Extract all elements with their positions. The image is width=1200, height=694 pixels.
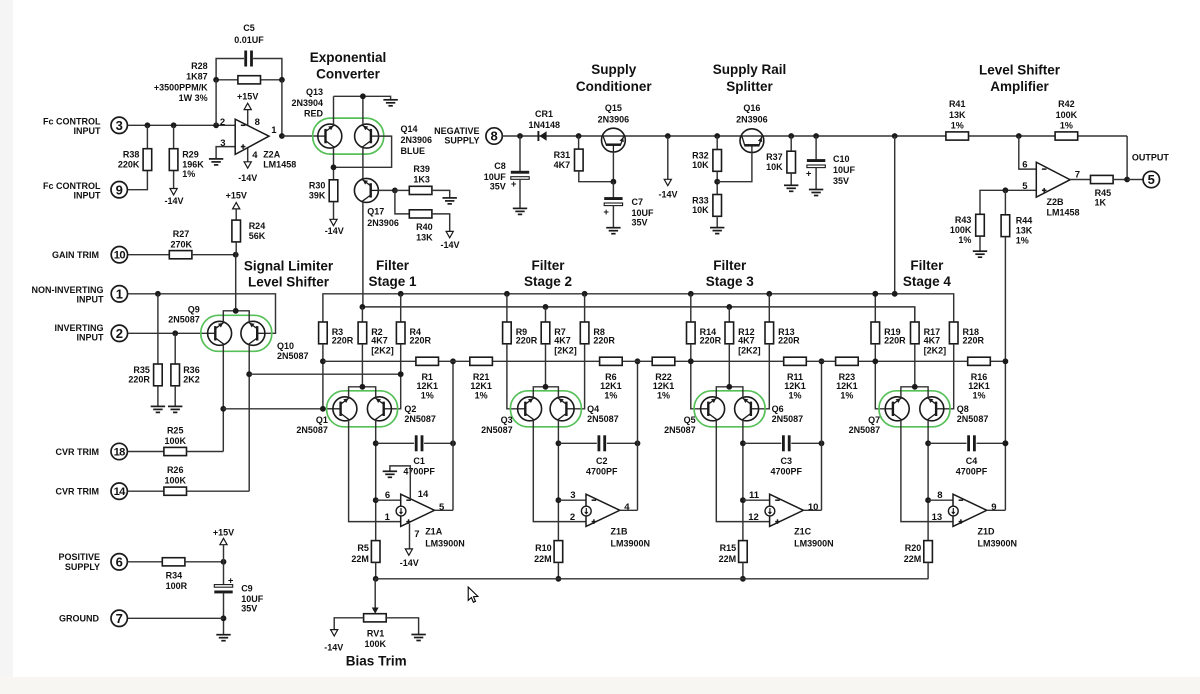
- label pin 7: [414, 529, 419, 540]
- svg-text:1N4148: 1N4148: [529, 120, 561, 130]
- wire collectors to ground: [334, 96, 391, 100]
- svg-text:3: 3: [220, 138, 225, 149]
- ground at C8: [513, 208, 527, 214]
- terminal input 2: [111, 325, 127, 341]
- svg-text:Level Shifter: Level Shifter: [248, 274, 330, 289]
- wire Z2B minus input: [1019, 136, 1037, 169]
- node spine R14 tap: [688, 358, 694, 364]
- svg-text:R15: R15: [720, 543, 737, 553]
- node minus input stage 4: [925, 497, 931, 503]
- resistor R21: [470, 357, 493, 365]
- resistor R24: [232, 220, 266, 242]
- wire R13 to Q6 base: [758, 344, 769, 409]
- svg-text:C9: C9: [241, 584, 253, 594]
- svg-text:100K: 100K: [950, 225, 972, 235]
- svg-text:R10: R10: [535, 543, 552, 553]
- wire Z1A pin 14 to ground: [390, 466, 410, 499]
- svg-text:Q5: Q5: [684, 415, 696, 425]
- svg-text:Q4: Q4: [587, 404, 599, 414]
- svg-text:2N3906: 2N3906: [598, 114, 630, 124]
- wire C5 right: [253, 59, 282, 80]
- wire R28 left lead: [216, 79, 238, 81]
- wire junction to Q9 Q10 bases: [235, 255, 237, 311]
- wire Z1A pin 7 stub: [409, 524, 411, 549]
- wire C8 column: [519, 136, 521, 172]
- wire filter feed column: [894, 136, 896, 294]
- svg-text:Filter: Filter: [531, 258, 565, 273]
- svg-text:BLUE: BLUE: [401, 146, 426, 156]
- svg-text:R34: R34: [166, 571, 183, 581]
- transistor Q10: [241, 321, 309, 361]
- svg-text:LM1458: LM1458: [1047, 207, 1080, 217]
- svg-text:12K1: 12K1: [416, 381, 438, 391]
- svg-text:Stage 4: Stage 4: [903, 274, 952, 289]
- wire C10 column: [815, 136, 817, 160]
- resistor R31: [554, 149, 583, 171]
- matched pair outline Q3 Q4: [510, 391, 581, 427]
- wire Q4 collector column: [557, 420, 559, 540]
- wire C3 right lead: [791, 442, 821, 444]
- svg-text:10: 10: [114, 250, 126, 262]
- svg-text:CVR TRIM: CVR TRIM: [56, 487, 100, 497]
- wire Q3 collector to plus input: [533, 420, 586, 521]
- svg-text:Exponential: Exponential: [310, 50, 387, 65]
- svg-text:1K3: 1K3: [413, 174, 430, 184]
- wire R42 to output node: [1126, 136, 1128, 180]
- node spine junction stage 2: [635, 358, 641, 364]
- node spine junction stage 3: [819, 358, 825, 364]
- resistor R1: [416, 357, 439, 365]
- wire C10 to ground: [815, 168, 817, 190]
- svg-text:56K: 56K: [249, 231, 266, 241]
- wire R8 to Q4 base: [574, 344, 585, 409]
- svg-text:3: 3: [570, 490, 575, 501]
- svg-text:Filter: Filter: [376, 258, 410, 273]
- svg-text:220R: 220R: [332, 336, 354, 346]
- svg-text:SUPPLY: SUPPLY: [65, 562, 100, 572]
- title Supply Conditioner: [576, 62, 652, 94]
- svg-text:1%: 1%: [788, 391, 801, 401]
- svg-text:9: 9: [116, 182, 123, 197]
- svg-text:Q10: Q10: [277, 341, 294, 351]
- label Fc CONTROL INPUT (9): [43, 181, 101, 200]
- ground exponential converter: [383, 100, 397, 106]
- resistor R26: [164, 487, 187, 495]
- wire R14 to Q5 base: [691, 344, 701, 409]
- svg-text:R30: R30: [309, 181, 326, 191]
- svg-text:R20: R20: [905, 543, 922, 553]
- svg-text:Level Shifter: Level Shifter: [979, 62, 1061, 77]
- capacitor C10: [806, 154, 856, 186]
- wire Z2B output to R45: [1070, 179, 1090, 181]
- wire Q2 collector column: [375, 420, 377, 540]
- label R16: [968, 372, 990, 401]
- svg-text:C1: C1: [413, 456, 425, 466]
- node bus1 feed tap: [892, 291, 898, 297]
- wire R25 to Q9 column: [187, 451, 224, 453]
- resistor R7: [541, 322, 577, 356]
- node bus2 tap R7: [543, 304, 549, 310]
- svg-text:12K1: 12K1: [600, 381, 622, 391]
- node bus1 tap R14: [688, 291, 694, 297]
- node R38 tap: [145, 122, 151, 128]
- label C4: [956, 456, 988, 477]
- wire R26 to Q10 column: [187, 490, 250, 492]
- svg-text:INPUT: INPUT: [74, 190, 102, 200]
- label GAIN TRIM: [52, 250, 99, 260]
- label NEGATIVE SUPPLY: [434, 126, 479, 145]
- resistor R22: [652, 357, 675, 365]
- svg-text:2N5087: 2N5087: [587, 414, 619, 424]
- svg-text:Q13: Q13: [306, 87, 323, 97]
- node bases bar Q9 Q10: [233, 308, 239, 314]
- wire R7 top lead: [545, 307, 547, 322]
- wire minus input stage 4: [928, 499, 953, 501]
- svg-text:2N3906: 2N3906: [401, 135, 433, 145]
- title Filter Stage 3: [706, 258, 755, 289]
- wire output column stage 2: [637, 361, 639, 510]
- resistor R44: [1001, 215, 1033, 246]
- svg-text:22M: 22M: [719, 554, 737, 564]
- capacitor C7: [603, 197, 654, 228]
- resistor R33: [692, 195, 721, 217]
- label R25: [164, 426, 186, 446]
- resistor R4: [396, 322, 431, 346]
- label -14V Z1A: [400, 558, 419, 568]
- node Q13 emitter junction: [331, 164, 337, 170]
- svg-text:4700PF: 4700PF: [771, 467, 803, 477]
- svg-text:Stage 2: Stage 2: [524, 274, 572, 289]
- svg-text:1%: 1%: [972, 391, 985, 401]
- wire Q10 emitter column: [248, 345, 250, 491]
- svg-text:R36: R36: [183, 365, 200, 375]
- svg-text:Z2B: Z2B: [1047, 197, 1065, 207]
- terminal input 6: [111, 554, 127, 570]
- label R41: [949, 99, 966, 131]
- wire R30 to -14V: [333, 202, 335, 220]
- svg-text:1: 1: [271, 125, 277, 136]
- svg-text:35V: 35V: [241, 604, 257, 614]
- power +15V arrow supply: [220, 538, 227, 544]
- svg-text:6: 6: [1022, 160, 1027, 171]
- svg-text:+: +: [806, 168, 812, 179]
- power -14V arrow rail: [664, 179, 671, 185]
- svg-text:2N5087: 2N5087: [481, 425, 513, 435]
- svg-text:Q6: Q6: [772, 404, 784, 414]
- svg-text:Q15: Q15: [605, 103, 622, 113]
- svg-text:INVERTING: INVERTING: [54, 323, 103, 333]
- wire R9 top lead: [506, 294, 508, 322]
- svg-text:LM3900N: LM3900N: [794, 539, 834, 549]
- resistor R17: [911, 322, 947, 356]
- wire terminal 3 to Z2A pin 2: [128, 124, 235, 126]
- svg-text:1%: 1%: [1016, 235, 1029, 245]
- wire inverting bus: [223, 408, 333, 410]
- svg-text:Z1A: Z1A: [425, 526, 443, 536]
- label OUTPUT: [1132, 153, 1170, 163]
- svg-text:Q2: Q2: [404, 404, 416, 414]
- label R42: [1056, 99, 1078, 131]
- resistor R23: [836, 357, 859, 365]
- svg-text:1W 3%: 1W 3%: [179, 93, 208, 103]
- wire R8 top lead: [584, 294, 586, 322]
- svg-text:LM3900N: LM3900N: [425, 539, 465, 549]
- label R39: [413, 164, 430, 184]
- label C5: [234, 23, 264, 45]
- label C3: [771, 456, 803, 477]
- svg-text:2N5087: 2N5087: [277, 351, 309, 361]
- svg-text:Z1D: Z1D: [978, 526, 996, 536]
- label -14V Z2A: [238, 173, 257, 183]
- svg-text:2N5087: 2N5087: [849, 425, 881, 435]
- svg-text:8: 8: [255, 117, 260, 128]
- svg-text:220R: 220R: [516, 336, 538, 346]
- wire R36 column: [174, 333, 176, 364]
- terminal input 8: [486, 128, 502, 144]
- svg-text:4: 4: [624, 502, 630, 513]
- wire R44 top lead: [1004, 190, 1006, 215]
- node Z2B minus junction: [1016, 133, 1022, 139]
- wire RV1 right to ground: [386, 618, 418, 635]
- svg-text:C2: C2: [596, 456, 608, 466]
- node bases bar stage 4: [912, 384, 918, 390]
- label +15V R24: [226, 191, 247, 201]
- node bus1 tap R4: [398, 291, 404, 297]
- svg-text:2N5087: 2N5087: [404, 414, 436, 424]
- resistor R16: [968, 357, 991, 365]
- resistor R20: [904, 541, 933, 564]
- wire R19 top lead: [874, 294, 876, 322]
- svg-text:1%: 1%: [958, 235, 971, 245]
- transistor Q17: [354, 178, 398, 227]
- wire Q13 collector stub: [333, 96, 335, 125]
- svg-text:POSITIVE: POSITIVE: [58, 552, 100, 562]
- wire to R39: [395, 189, 409, 191]
- label RV1: [365, 629, 387, 649]
- svg-text:R35: R35: [133, 365, 150, 375]
- wire Q9 Q10 bases bar: [223, 311, 249, 322]
- wire C8 to ground: [519, 179, 521, 208]
- node R44 plus junction: [1003, 187, 1009, 193]
- resistor R43: [950, 214, 984, 245]
- node non-inverting bus join: [398, 371, 404, 377]
- svg-text:INPUT: INPUT: [77, 333, 105, 343]
- svg-text:Signal Limiter: Signal Limiter: [244, 258, 334, 273]
- svg-text:1%: 1%: [951, 121, 964, 131]
- svg-text:8: 8: [490, 129, 497, 144]
- node minus input stage 1: [373, 497, 379, 503]
- wire R29 to -14V: [173, 171, 175, 189]
- node R31 tap: [576, 133, 582, 139]
- svg-text:11: 11: [749, 490, 760, 501]
- svg-text:Stage 3: Stage 3: [706, 274, 755, 289]
- svg-text:2N5087: 2N5087: [772, 414, 804, 424]
- label -14V rail: [658, 190, 677, 200]
- node spine R19 tap: [872, 358, 878, 364]
- resistor R12: [725, 322, 761, 356]
- wire C3 left lead: [743, 442, 781, 444]
- ground at Z1A pin 14: [383, 471, 397, 477]
- title Bias Trim: [346, 654, 407, 669]
- node C10 tap: [813, 133, 819, 139]
- svg-text:22M: 22M: [904, 554, 922, 564]
- svg-text:R41: R41: [949, 99, 966, 109]
- node filter feed tap: [892, 133, 898, 139]
- resistor R9: [503, 322, 538, 346]
- transistor Q2: [367, 397, 436, 424]
- node cap right stage 3: [819, 440, 825, 446]
- label -14V RV1: [324, 643, 343, 653]
- wiper arrow RV1: [372, 608, 379, 614]
- wire C1 right lead: [424, 442, 453, 444]
- svg-text:5: 5: [439, 502, 445, 513]
- wire terminal 10 to R27: [128, 254, 169, 256]
- node R35 tap: [155, 291, 161, 297]
- wire Q6 collector column: [742, 420, 744, 540]
- wire output node to terminal 5: [1127, 179, 1143, 181]
- node Q9 emitter bus: [220, 406, 226, 412]
- resistor R36: [171, 364, 200, 386]
- svg-text:2N5087: 2N5087: [296, 425, 328, 435]
- wire -14V stub: [667, 136, 669, 179]
- svg-text:13: 13: [932, 512, 943, 523]
- label -14V below R29: [164, 196, 183, 206]
- svg-text:C5: C5: [243, 23, 255, 33]
- svg-text:R27: R27: [173, 229, 190, 239]
- svg-text:1%: 1%: [182, 169, 195, 179]
- svg-text:12K1: 12K1: [653, 381, 675, 391]
- node inverting bus join: [320, 406, 326, 412]
- power -14V arrow below R29: [170, 189, 177, 195]
- svg-text:[2K2]: [2K2]: [554, 346, 577, 356]
- wire to R40: [395, 190, 409, 214]
- svg-text:R38: R38: [123, 150, 140, 160]
- wire R4 to Q2 base: [391, 344, 401, 409]
- node bus1 tap R19: [872, 291, 878, 297]
- svg-text:0.01UF: 0.01UF: [234, 35, 264, 45]
- wire R43 to ground: [979, 236, 981, 251]
- wire R20 to bottom bus: [927, 562, 929, 578]
- ground at R36: [168, 406, 182, 412]
- transistor Q1: [296, 397, 357, 435]
- resistor R38: [118, 149, 152, 171]
- svg-text:220R: 220R: [963, 336, 985, 346]
- svg-text:R42: R42: [1058, 99, 1075, 109]
- resistor R19: [871, 322, 906, 346]
- svg-text:+: +: [228, 576, 234, 587]
- node feedback right: [279, 77, 285, 83]
- node bases bar stage 2: [543, 384, 549, 390]
- svg-text:100K: 100K: [365, 639, 387, 649]
- wire output column stage 4: [1004, 361, 1006, 510]
- svg-text:22M: 22M: [534, 554, 552, 564]
- op-amp Z1B: [570, 490, 650, 549]
- svg-text:Filter: Filter: [713, 258, 747, 273]
- wire bases bar Q3 Q4: [533, 387, 558, 398]
- ground at R37: [784, 185, 798, 191]
- resistor R37: [766, 151, 795, 173]
- svg-text:220R: 220R: [128, 375, 150, 385]
- wire bottom bus: [375, 578, 928, 580]
- op-amp Z1C: [748, 490, 833, 549]
- power -14V arrow below R40: [446, 231, 453, 237]
- label GROUND: [59, 614, 99, 624]
- label R28: [154, 61, 208, 103]
- terminal input 3: [111, 117, 127, 133]
- node feedback left: [213, 77, 219, 83]
- svg-text:2: 2: [116, 326, 123, 341]
- label +15V Z2A: [237, 92, 258, 102]
- svg-text:R44: R44: [1016, 216, 1033, 226]
- wire R12 to bases bar: [728, 344, 730, 387]
- svg-text:1%: 1%: [475, 391, 488, 401]
- node feedback tap pin2: [213, 122, 219, 128]
- wire R33 to ground: [716, 216, 718, 227]
- node bottom bus stage 1: [373, 576, 379, 582]
- svg-text:C10: C10: [833, 154, 850, 164]
- title Exponential Converter: [310, 50, 387, 81]
- wire feedback column to pin 2: [215, 80, 217, 126]
- wire terminal 7 to ground node: [128, 617, 224, 619]
- svg-text:R45: R45: [1095, 188, 1112, 198]
- capacitor C1: [415, 435, 424, 451]
- node bottom bus stage 3: [740, 576, 746, 582]
- svg-text:R26: R26: [167, 465, 184, 475]
- transistor Q16: [736, 103, 768, 153]
- wire output column: [281, 80, 283, 136]
- svg-text:10UF: 10UF: [484, 172, 507, 182]
- node Q10 emitter bus: [246, 371, 252, 377]
- svg-text:-14V: -14V: [400, 558, 419, 568]
- resistor R40: [409, 210, 432, 218]
- svg-text:1%: 1%: [840, 391, 853, 401]
- op-amp Z2B: [1022, 160, 1080, 218]
- svg-text:2N3906: 2N3906: [367, 218, 399, 228]
- svg-text:6: 6: [385, 490, 390, 501]
- wire R10 to bottom bus: [557, 562, 559, 578]
- ground at C7: [606, 228, 620, 234]
- svg-text:2N3906: 2N3906: [736, 114, 768, 124]
- svg-text:8: 8: [937, 490, 942, 501]
- wire R2 top lead: [361, 307, 363, 322]
- svg-text:9: 9: [991, 502, 996, 513]
- svg-text:-14V: -14V: [324, 643, 343, 653]
- svg-text:14: 14: [418, 489, 429, 500]
- node bus1 R19 tap b: [872, 291, 878, 297]
- power +15V arrow Z2A: [244, 103, 251, 109]
- wire minus input stage 2: [558, 499, 586, 501]
- svg-text:7: 7: [414, 529, 419, 540]
- matched pair outline Q7 Q8: [879, 391, 950, 427]
- svg-text:2N5087: 2N5087: [168, 314, 200, 324]
- wire C4 left lead: [928, 442, 966, 444]
- svg-text:2N5087: 2N5087: [957, 414, 989, 424]
- wire Q7 collector to plus input: [901, 420, 953, 521]
- svg-text:R24: R24: [249, 221, 266, 231]
- ground at Z2A pin 3: [209, 159, 223, 165]
- wire terminal 18 to R25: [128, 451, 164, 453]
- title Filter Stage 2: [524, 258, 572, 289]
- svg-text:+15V: +15V: [213, 527, 234, 537]
- resistor R6: [600, 357, 623, 365]
- node bus1 tap R13: [766, 291, 772, 297]
- wire R13 top lead: [768, 294, 770, 322]
- wire C5 left: [216, 59, 244, 80]
- label -14V below R40: [440, 240, 459, 250]
- transistor Q15: [598, 103, 630, 152]
- svg-text:R29: R29: [182, 150, 199, 160]
- wire Z1C output: [803, 509, 821, 511]
